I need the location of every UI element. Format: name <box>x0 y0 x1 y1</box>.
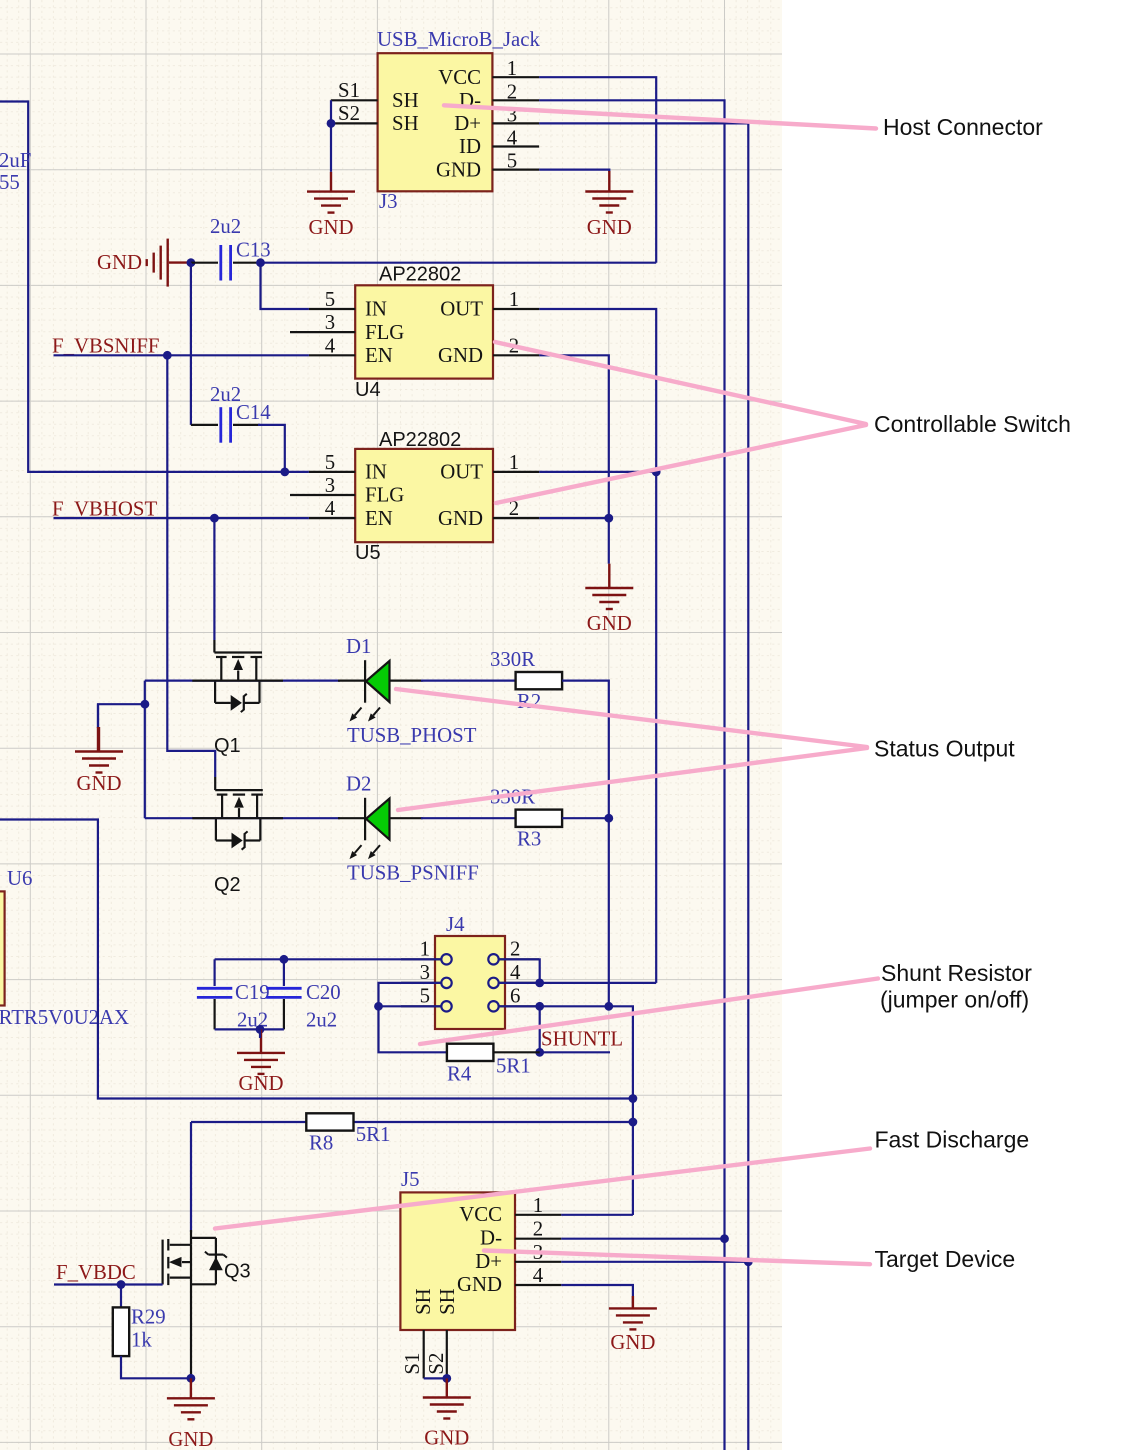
svg-text:EN: EN <box>365 507 393 530</box>
pin S1 SH of J5 (rotated) <box>423 1330 425 1378</box>
svg-text:1: 1 <box>509 451 519 474</box>
pin 1 VCC of J3 <box>492 76 539 78</box>
svg-text:F_VBDC: F_VBDC <box>56 1261 136 1284</box>
transistor Q1 P-MOSFET <box>213 640 215 653</box>
svg-text:S1: S1 <box>401 1353 424 1375</box>
transistor Q2 P-MOSFET <box>214 777 216 790</box>
svg-text:2: 2 <box>533 1218 543 1241</box>
pin 3 FLG of U5 <box>290 494 355 496</box>
wire R2 to LED rail <box>562 681 609 1007</box>
svg-text:U4: U4 <box>355 379 381 401</box>
led D2 <box>338 817 364 819</box>
svg-text:GND: GND <box>457 1273 502 1296</box>
annotation line Status Output upper <box>396 689 867 747</box>
wire C14 to U5 IN <box>258 425 285 472</box>
wire to ground Q1/Q2 <box>98 704 145 728</box>
svg-text:55: 55 <box>0 171 20 194</box>
svg-text:IN: IN <box>365 461 387 484</box>
svg-text:S2: S2 <box>338 102 360 125</box>
svg-text:Q2: Q2 <box>214 874 241 896</box>
svg-text:USB_MicroB_Jack: USB_MicroB_Jack <box>377 28 541 51</box>
ground symbol sideways at C13 <box>166 239 168 287</box>
svg-text:Status Output: Status Output <box>874 736 1015 762</box>
connector J3 USB_MicroB_Jack body <box>378 53 493 191</box>
svg-text:1: 1 <box>533 1194 543 1217</box>
svg-text:SH: SH <box>412 1288 435 1315</box>
svg-text:4: 4 <box>510 961 521 984</box>
wire U5 OUT to VCC vertical <box>539 471 656 473</box>
svg-text:VCC: VCC <box>459 1203 502 1226</box>
pin 1 OUT of U4 <box>493 308 539 310</box>
annotation line Host Connector <box>444 105 876 128</box>
svg-text:U5: U5 <box>355 542 381 564</box>
annotation line Controllable Switch lower <box>496 425 866 503</box>
pin 3 D+ of J3 <box>492 122 539 124</box>
ic U5 body <box>355 449 493 542</box>
wire J5 D- net <box>561 1238 724 1240</box>
svg-text:Q3: Q3 <box>224 1261 251 1283</box>
svg-text:TUSB_PHOST: TUSB_PHOST <box>347 724 477 747</box>
junction R4 right <box>535 1048 544 1057</box>
wire D2 to R3 <box>421 817 516 819</box>
junction pin6 <box>535 1002 544 1011</box>
annotation line Fast Discharge <box>215 1149 870 1229</box>
wire J4 pin6 / SHUNTL rail <box>499 1006 633 1215</box>
wire C13 to VCC vertical <box>261 262 657 264</box>
wire J3 shield to ground <box>330 100 332 172</box>
junction J5 shield <box>442 1374 451 1383</box>
svg-text:GND: GND <box>610 1331 655 1354</box>
junction D- <box>720 1234 729 1243</box>
svg-text:6: 6 <box>510 984 520 1007</box>
svg-text:4: 4 <box>325 497 336 520</box>
svg-text:D1: D1 <box>346 635 371 658</box>
ground symbol below U5 <box>608 564 610 588</box>
connector J5 body <box>400 1192 515 1330</box>
wire R3 to LED rail <box>562 817 609 819</box>
svg-text:C14: C14 <box>236 401 271 424</box>
pin 5 IN of U4 <box>309 308 355 310</box>
svg-text:F_VBSNIFF: F_VBSNIFF <box>52 335 160 358</box>
svg-text:R4: R4 <box>447 1063 472 1086</box>
svg-text:1: 1 <box>420 937 430 960</box>
svg-text:U6: U6 <box>7 867 32 890</box>
junction C13 right <box>256 258 265 267</box>
svg-text:2uF: 2uF <box>0 149 31 172</box>
svg-text:SH: SH <box>392 112 419 135</box>
annotation line Status Output lower <box>398 748 867 810</box>
wire J5 VCC to rail <box>561 1214 633 1216</box>
svg-text:GND: GND <box>424 1426 469 1449</box>
wire LED row 1 <box>144 681 146 819</box>
svg-text:IN: IN <box>365 298 387 321</box>
svg-text:Host Connector: Host Connector <box>883 114 1043 140</box>
svg-text:D2: D2 <box>346 773 371 796</box>
svg-text:C13: C13 <box>236 239 271 262</box>
svg-text:AP22802: AP22802 <box>379 264 461 286</box>
svg-text:Q1: Q1 <box>214 735 241 757</box>
wire J5 D+ net <box>561 1261 748 1263</box>
svg-text:5: 5 <box>325 451 335 474</box>
pin S2 SH of J5 (rotated) <box>446 1330 448 1378</box>
svg-text:330R: 330R <box>490 648 535 671</box>
svg-text:S2: S2 <box>425 1353 448 1375</box>
wire J3 GND pin to ground <box>539 170 609 172</box>
wire U4 GND net <box>539 355 609 563</box>
junction R8 net <box>629 1118 638 1127</box>
svg-text:VCC: VCC <box>438 66 481 89</box>
junction caps ground <box>256 1025 265 1034</box>
capacitor C14 <box>191 424 218 426</box>
svg-text:SH: SH <box>392 89 419 112</box>
pin 1 OUT of U5 <box>493 471 539 473</box>
svg-text:4: 4 <box>533 1264 544 1287</box>
svg-text:D+: D+ <box>475 1250 502 1273</box>
svg-text:J5: J5 <box>401 1168 420 1191</box>
svg-text:PRTR5V0U2AX: PRTR5V0U2AX <box>0 1006 129 1029</box>
svg-text:1: 1 <box>507 57 517 80</box>
svg-text:D-: D- <box>480 1227 502 1250</box>
svg-text:3: 3 <box>420 961 430 984</box>
svg-text:GND: GND <box>238 1072 283 1095</box>
resistor R2 330R <box>516 672 563 689</box>
wire J5 shield pins <box>424 1377 447 1379</box>
junction F_VBHOST <box>210 514 219 523</box>
svg-text:Target Device: Target Device <box>875 1246 1016 1272</box>
wire caps bottom <box>215 1028 284 1030</box>
svg-text:4: 4 <box>325 334 336 357</box>
resistor R29 1k <box>120 1285 122 1309</box>
wire R8 net <box>354 1121 633 1123</box>
ground symbol below caps <box>260 1029 262 1053</box>
svg-text:GND: GND <box>438 344 483 367</box>
wire J4 pin2/pin4 to VCC vertical <box>499 959 540 983</box>
wire R8 to Q3 drain <box>190 1122 192 1232</box>
ground symbol at J5 shield <box>446 1378 448 1397</box>
capacitor C13 <box>191 262 218 264</box>
svg-text:AP22802: AP22802 <box>379 429 461 451</box>
svg-text:5: 5 <box>325 288 335 311</box>
wire from off-sheet cap to U5 IN <box>0 102 309 472</box>
svg-text:2u2: 2u2 <box>306 1009 337 1032</box>
wire C13 down to U4 IN <box>261 263 309 309</box>
svg-text:GND: GND <box>438 507 483 530</box>
connector J4 body <box>435 936 505 1029</box>
wire J3 D+ net <box>539 123 748 1450</box>
pin 3 D+ of J5 <box>515 1261 561 1263</box>
svg-text:5: 5 <box>420 984 430 1007</box>
svg-text:5R1: 5R1 <box>356 1123 391 1146</box>
wire J3 D- net <box>539 100 724 1450</box>
ic U6 partial body <box>0 891 5 1005</box>
resistor R3 330R <box>516 810 563 827</box>
junction C13 left <box>187 258 196 267</box>
svg-text:1: 1 <box>509 288 519 311</box>
svg-text:R2: R2 <box>517 690 541 713</box>
wire from U6 to bottom rail <box>0 820 633 1099</box>
junction C20 top <box>280 955 289 964</box>
wire D1 to R2 <box>421 679 516 681</box>
svg-text:SH: SH <box>436 1288 459 1315</box>
pin 4 EN of U5 <box>309 517 355 519</box>
annotation line Target Device <box>484 1251 870 1265</box>
wire U4 OUT net <box>539 309 656 983</box>
ground symbol at J5 GND <box>632 1296 634 1308</box>
svg-text:C20: C20 <box>306 981 341 1004</box>
pin 5 of J4 <box>401 1005 441 1007</box>
capacitor C20 <box>283 959 285 986</box>
svg-text:R8: R8 <box>309 1132 333 1155</box>
wire GND junction down to C14 <box>190 263 192 425</box>
svg-text:GND: GND <box>76 772 121 795</box>
junction row2 rail <box>604 814 613 823</box>
svg-text:2u2: 2u2 <box>210 215 241 238</box>
svg-text:2: 2 <box>510 937 520 960</box>
svg-text:FLG: FLG <box>365 321 404 344</box>
svg-text:J4: J4 <box>446 913 465 936</box>
pin 2 GND of U4 <box>493 354 539 356</box>
transistor Q3 N-MOSFET <box>190 1230 192 1245</box>
svg-text:2: 2 <box>507 80 517 103</box>
wire F_VBHOST to U5 EN <box>54 517 309 519</box>
wire SHUNTL stub <box>540 1051 610 1053</box>
svg-text:C19: C19 <box>235 981 270 1004</box>
ground symbol left of Q1 <box>98 727 100 752</box>
svg-text:R29: R29 <box>131 1306 166 1329</box>
wire J4 pin3/pin5 to R4 <box>379 983 448 1052</box>
junction bottom rail at J5 vertical <box>629 1094 638 1103</box>
svg-text:(jumper on/off): (jumper on/off) <box>880 987 1029 1013</box>
svg-text:Fast Discharge: Fast Discharge <box>875 1127 1030 1153</box>
junction ground tap <box>141 700 150 709</box>
ground symbol at J3 shield <box>330 172 332 192</box>
pin 3 of J4 <box>401 982 441 984</box>
annotation line Shunt Resistor <box>420 979 878 1045</box>
pin 1 of J4 <box>401 958 441 960</box>
svg-text:ID: ID <box>459 135 481 158</box>
svg-text:GND: GND <box>436 158 481 181</box>
pin S2 SH of J3 <box>331 122 378 124</box>
svg-text:5R1: 5R1 <box>496 1055 531 1078</box>
wire J3 VCC net <box>539 77 656 263</box>
svg-text:EN: EN <box>365 344 393 367</box>
ic U4 body <box>355 285 493 378</box>
junction U5 OUT <box>652 468 661 477</box>
pin 4 EN of U4 <box>309 354 355 356</box>
pin 3 FLG of U4 <box>290 331 355 333</box>
svg-text:5: 5 <box>507 150 517 173</box>
wire U5 GND to ground vertical <box>539 517 609 519</box>
svg-text:GND: GND <box>587 216 632 239</box>
wire J5 GND to ground <box>561 1285 633 1307</box>
schematic sheet background <box>0 0 782 1450</box>
svg-text:OUT: OUT <box>440 298 483 321</box>
wire F_VBHOST to Q1 gate <box>213 518 215 640</box>
capacitor C19 <box>214 959 216 986</box>
junction C14/U5 IN <box>280 468 289 477</box>
svg-text:GND: GND <box>97 251 142 274</box>
junction F_VBSNIFF <box>163 351 172 360</box>
wire pin6 down to R4 right <box>539 1006 541 1052</box>
svg-text:D+: D+ <box>454 112 481 135</box>
pin 2 D- of J5 <box>515 1238 561 1240</box>
pin 1 VCC of J5 <box>515 1214 561 1216</box>
pin 4 of J4 <box>499 982 539 984</box>
svg-text:3: 3 <box>325 474 335 497</box>
junction U5 GND <box>604 514 613 523</box>
pin 6 of J4 <box>499 1005 539 1007</box>
svg-text:FLG: FLG <box>365 484 404 507</box>
wire F_VBSNIFF to U4 EN <box>54 354 309 356</box>
pin 2 of J4 <box>499 958 539 960</box>
wire LED row 2 <box>145 817 340 819</box>
svg-text:S1: S1 <box>338 79 360 102</box>
pin 2 D- of J3 <box>492 99 539 101</box>
wire J4 pin1 to caps <box>215 958 441 960</box>
resistor R4 5R1 <box>493 1051 540 1053</box>
annotation line Controllable Switch upper <box>495 342 866 424</box>
junction R29 top <box>117 1280 126 1289</box>
svg-text:1k: 1k <box>131 1329 152 1352</box>
ground symbol below Q3 <box>190 1378 192 1398</box>
ground symbol at J3 pin5 <box>608 171 610 192</box>
junction LED rail end <box>604 1002 613 1011</box>
pin 5 GND of J3 <box>492 169 539 171</box>
junction pin5 <box>374 1002 383 1011</box>
svg-text:GND: GND <box>168 1428 213 1450</box>
pin 4 ID of J3 <box>492 145 539 147</box>
junction D+ <box>744 1257 753 1266</box>
svg-text:Shunt Resistor: Shunt Resistor <box>881 960 1032 986</box>
pin S1 SH of J3 <box>331 99 378 101</box>
wire F_VBSNIFF to Q2 gate <box>167 355 215 777</box>
pin 2 GND of U5 <box>493 517 539 519</box>
junction S1/S2 <box>327 119 336 128</box>
svg-text:GND: GND <box>308 216 353 239</box>
svg-text:3: 3 <box>325 311 335 334</box>
svg-text:TUSB_PSNIFF: TUSB_PSNIFF <box>347 862 479 885</box>
junction Q3 source ground <box>187 1374 196 1383</box>
resistor R8 5R1 <box>191 1121 307 1123</box>
led D1 <box>338 679 364 681</box>
pin 4 GND of J5 <box>515 1284 561 1286</box>
svg-text:R3: R3 <box>517 828 541 851</box>
wire F_VBDC to Q3 gate <box>54 1283 163 1285</box>
svg-text:SHUNTL: SHUNTL <box>541 1028 623 1051</box>
junction pin2/4 <box>535 979 544 988</box>
svg-text:GND: GND <box>587 612 632 635</box>
pin 5 IN of U5 <box>309 471 355 473</box>
svg-text:4: 4 <box>507 127 518 150</box>
svg-text:J3: J3 <box>379 190 398 213</box>
svg-text:OUT: OUT <box>440 461 483 484</box>
svg-text:Controllable Switch: Controllable Switch <box>874 411 1071 437</box>
